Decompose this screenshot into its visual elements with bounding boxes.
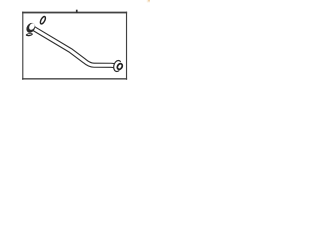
washer under flange — [26, 33, 34, 37]
frame bottom line — [22, 78, 127, 79]
tick mark on top border — [76, 10, 78, 13]
O-ring — [39, 16, 46, 25]
pipe P1 — [34, 29, 117, 67]
end fitting at pipe right end — [112, 60, 123, 73]
frame left line — [22, 12, 23, 80]
background — [0, 0, 150, 88]
frame top line — [22, 12, 127, 14]
flange at pipe left end — [25, 21, 37, 34]
corner smudge — [147, 0, 150, 2]
frame right line — [126, 12, 127, 80]
